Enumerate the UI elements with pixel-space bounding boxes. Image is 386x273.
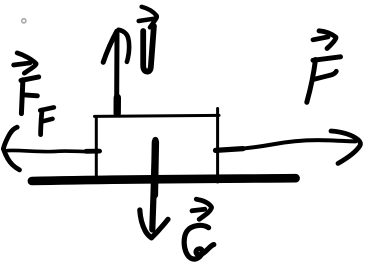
- label N with vector arrow: [139, 7, 157, 72]
- label F with vector arrow (applied force): [307, 31, 341, 103]
- stray dot: [22, 19, 26, 23]
- arrow G (gravity, down): [140, 140, 168, 238]
- arrow N (normal force, up): [103, 30, 129, 115]
- label F_F with vector arrow: [14, 53, 54, 135]
- label G with vector arrow: [184, 199, 214, 259]
- block (box on surface): [95, 109, 220, 183]
- applied force line F (rightward): [215, 131, 360, 163]
- friction force line F_F (leftward): [3, 127, 100, 170]
- ground: [32, 178, 296, 181]
